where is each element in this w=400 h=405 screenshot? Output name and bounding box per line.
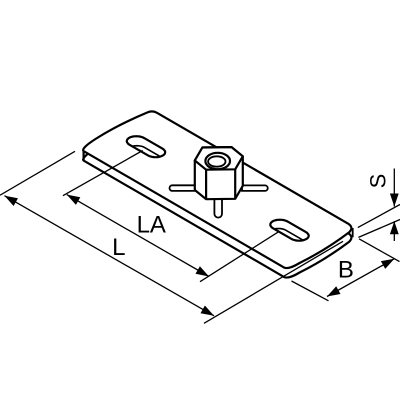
svg-text:S: S	[366, 174, 391, 189]
svg-text:LA: LA	[137, 212, 166, 239]
svg-text:B: B	[338, 257, 354, 284]
svg-text:L: L	[112, 234, 125, 261]
